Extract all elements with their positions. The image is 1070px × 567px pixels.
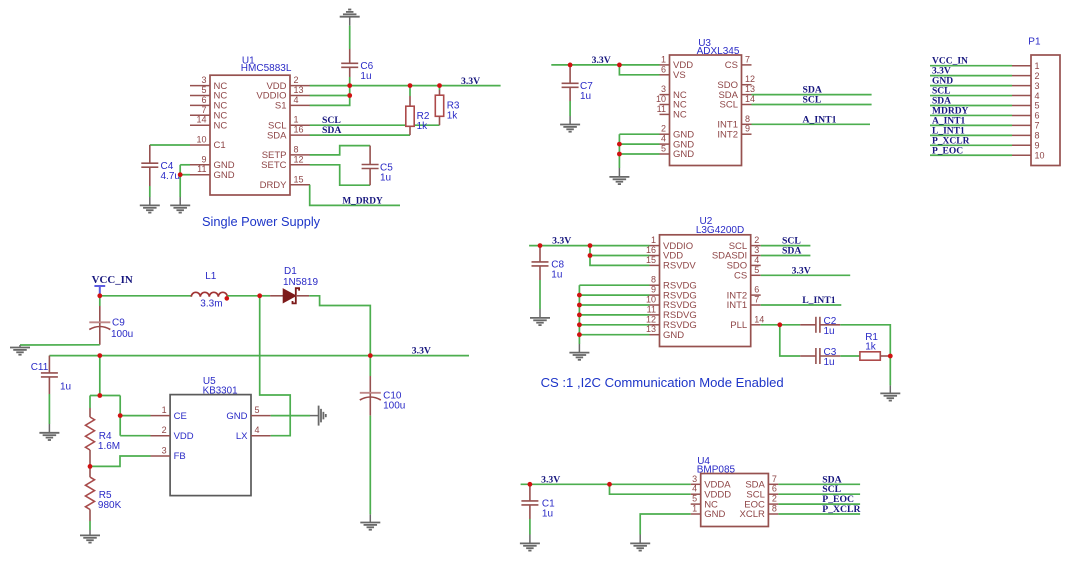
svg-text:9: 9: [1035, 141, 1040, 151]
diode D1 1N5819: [283, 289, 296, 303]
wire C11 to ground: [48, 394, 50, 424]
ground below C4: [140, 205, 160, 212]
svg-text:16: 16: [646, 245, 656, 255]
svg-text:FB: FB: [174, 451, 186, 462]
svg-text:1k: 1k: [447, 110, 459, 121]
wire L1 to D1 node: [227, 295, 259, 297]
svg-text:14: 14: [196, 115, 206, 125]
U1 pin 12 SETC: [290, 164, 310, 166]
ground below U3: [609, 177, 629, 184]
svg-text:8: 8: [294, 144, 299, 154]
svg-text:VS: VS: [673, 70, 686, 81]
wire C2 to right riser: [840, 325, 890, 356]
svg-text:C9: C9: [112, 318, 125, 329]
junction RSVDG rail: [577, 293, 582, 298]
svg-text:8: 8: [1035, 131, 1040, 141]
wire P1 MDRDY: [930, 114, 1012, 116]
U1 pin 3 NC: [190, 85, 210, 87]
U2 pin 10 RSVDG: [650, 304, 660, 306]
wire CE: [120, 415, 150, 417]
wire U1 VDDIO: [310, 95, 350, 97]
wire SETP to C5 top: [310, 146, 370, 155]
U5 pin 4 LX: [251, 435, 271, 437]
ground right of U5: [319, 406, 326, 426]
U1 pin 11 GND: [190, 174, 210, 176]
wire U2 INT1 L_INT1: [761, 304, 842, 306]
resistor R1 right lead: [880, 355, 890, 357]
svg-text:2: 2: [162, 425, 167, 435]
wire FB: [90, 456, 151, 466]
wire P1 VCC_IN: [930, 65, 1012, 67]
svg-text:SDA: SDA: [267, 130, 287, 141]
svg-text:7: 7: [1035, 121, 1040, 131]
U3 pin 8 INT1: [742, 123, 752, 125]
wire P1 GND: [930, 85, 1012, 87]
U3 pin 11 NC: [660, 113, 670, 115]
wire riser to ground: [889, 356, 891, 385]
svg-text:GND: GND: [226, 411, 247, 422]
svg-text:8: 8: [772, 504, 777, 514]
wire RSVDG gnd stem: [578, 344, 580, 353]
U3 pin 5 GND: [660, 153, 670, 155]
capacitor C11: [41, 373, 58, 377]
wire U2 RSVDG pin: [579, 334, 649, 336]
wire U4 XCLR P_XCLR: [778, 513, 860, 515]
wire C8 to ground: [539, 280, 541, 309]
svg-text:KB3301: KB3301: [203, 386, 238, 397]
wire U1 pin11 GND: [180, 174, 190, 176]
junction VS riser: [617, 63, 622, 68]
svg-text:3.3V: 3.3V: [412, 346, 431, 357]
wire U2 SCL: [761, 245, 811, 247]
U2 pin 12 RSVDG: [650, 324, 660, 326]
junction L1-D1-LX node: [257, 293, 262, 298]
junction VDDD riser: [607, 482, 612, 487]
svg-text:1u: 1u: [542, 508, 553, 519]
svg-text:L3G4200D: L3G4200D: [696, 225, 744, 236]
U2 pin 3 SDASDI: [751, 255, 761, 257]
junction CE node: [118, 413, 123, 418]
U3 pin 6 VS: [660, 74, 670, 76]
wire D1 cathode to 3.3V rail: [309, 296, 370, 356]
svg-text:C1: C1: [214, 140, 226, 151]
svg-text:6: 6: [201, 95, 206, 105]
svg-text:L1: L1: [205, 271, 217, 282]
junction R2 top: [408, 83, 413, 88]
svg-text:1: 1: [1035, 61, 1040, 71]
svg-text:1u: 1u: [380, 172, 391, 183]
svg-text:980K: 980K: [98, 500, 122, 511]
junction PLL node: [777, 322, 782, 327]
capacitor C5 bottom lead: [369, 169, 371, 186]
U1 pin 15 DRDY: [290, 184, 310, 186]
connector P1 body: [1031, 55, 1060, 166]
ground below C7: [560, 125, 580, 132]
svg-text:14: 14: [745, 94, 755, 104]
resistor R3 bottom lead: [439, 116, 441, 125]
svg-text:1: 1: [661, 54, 666, 64]
svg-text:9: 9: [745, 124, 750, 134]
capacitor C3 left lead: [800, 355, 816, 357]
capacitor C6: [341, 63, 358, 67]
U1 pin 5 NC: [190, 95, 210, 97]
wire PLL down to C3: [780, 325, 800, 356]
svg-text:4: 4: [754, 255, 759, 265]
capacitor C5 top lead: [369, 146, 371, 165]
wire node to R4 and CE riser: [90, 395, 120, 397]
wire U3 SCL: [752, 104, 872, 106]
svg-text:L_INT1: L_INT1: [802, 295, 836, 306]
U4 pin 7 SDA: [768, 483, 778, 485]
wire U4 EOC P_EOC: [778, 503, 860, 505]
wire U3 GND pin4: [619, 143, 659, 145]
U2 pin 4 SDO: [751, 264, 761, 266]
resistor R3 top lead: [439, 86, 441, 90]
svg-text:13: 13: [745, 84, 755, 94]
svg-text:1k: 1k: [865, 342, 877, 353]
svg-text:SDA: SDA: [932, 97, 951, 107]
U3 pin 14 SCL: [742, 104, 752, 106]
power flag VCC_IN: [94, 286, 105, 296]
svg-text:3: 3: [754, 245, 759, 255]
capacitor C1 bottom lead: [529, 505, 531, 519]
svg-text:4.7u: 4.7u: [161, 171, 180, 182]
U1 pin 16 SDA: [290, 134, 310, 136]
U5 pin 1 CE: [151, 415, 171, 417]
svg-text:Single Power Supply: Single Power Supply: [202, 214, 321, 229]
wire U2 RSVDG pin: [579, 304, 649, 306]
capacitor C9 polarized: [89, 321, 110, 323]
svg-text:1u: 1u: [580, 91, 591, 102]
resistor R2 top lead: [409, 86, 411, 96]
capacitor C9 top lead: [99, 296, 101, 306]
ground below R5: [80, 535, 100, 542]
U1 pin 1 SCL: [290, 124, 310, 126]
svg-text:NC: NC: [214, 120, 228, 131]
U3 pin 12 SDO: [742, 84, 752, 86]
svg-text:4: 4: [255, 425, 260, 435]
wire rail down to R4/CE node: [99, 356, 101, 396]
junction U3 gnd pin4: [617, 142, 622, 147]
wire P1 P_EOC: [930, 154, 1012, 156]
U2 pin 15 RSVDV: [650, 264, 660, 266]
svg-text:7: 7: [745, 54, 750, 64]
junction R4/CE node: [97, 393, 102, 398]
U5 pin 3 FB: [151, 455, 171, 457]
wire C9 to ground line: [20, 344, 100, 346]
capacitor C7 bottom lead: [569, 87, 571, 101]
capacitor C8 top lead: [539, 246, 541, 262]
svg-text:XCLR: XCLR: [740, 509, 765, 520]
op-amp U3 ADXL345 accelerometer IC body: [670, 55, 742, 166]
junction VDDIO: [347, 93, 352, 98]
capacitor C3: [816, 348, 820, 364]
capacitor C1: [521, 501, 538, 505]
svg-text:3.3V: 3.3V: [932, 67, 951, 77]
svg-text:10: 10: [646, 295, 656, 305]
svg-text:P_EOC: P_EOC: [932, 146, 963, 156]
U2 pin 7 INT1: [751, 304, 761, 306]
svg-text:6: 6: [772, 484, 777, 494]
U5 pin 2 VDD: [151, 435, 171, 437]
wire U2 RSVDG pin: [579, 314, 649, 316]
U2 pin 9 RSVDG: [650, 294, 660, 296]
U3 pin 2 GND: [660, 133, 670, 135]
svg-text:S1: S1: [275, 101, 287, 112]
U1 pin 8 SETP: [290, 154, 310, 156]
junction rail feed: [97, 353, 102, 358]
wire P1 A_INT1: [930, 124, 1012, 126]
inductor L1: [191, 292, 227, 297]
svg-text:10: 10: [656, 94, 666, 104]
svg-text:1: 1: [651, 235, 656, 245]
svg-text:3.3V: 3.3V: [592, 55, 611, 66]
svg-text:7: 7: [754, 295, 759, 305]
wire DRDY to M_DRDY: [310, 185, 400, 206]
resistor R5 bottom lead: [89, 510, 91, 522]
U1 pin 14 NC: [190, 124, 210, 126]
svg-text:CS: CS: [725, 60, 738, 71]
junction U1 gnd node: [178, 172, 183, 177]
capacitor C1 top lead: [529, 484, 531, 501]
svg-text:6: 6: [754, 285, 759, 295]
U4 pin 6 SCL: [768, 493, 778, 495]
svg-text:11: 11: [647, 304, 656, 314]
junction R1 right: [888, 354, 893, 359]
wire C6 to VDDIO junction: [349, 77, 351, 96]
svg-text:SCL: SCL: [932, 87, 950, 97]
svg-text:3: 3: [162, 446, 167, 456]
svg-text:1u: 1u: [360, 71, 371, 82]
svg-text:GND: GND: [673, 149, 694, 160]
svg-text:4: 4: [692, 484, 697, 494]
wire U2 VDD pin16: [590, 246, 650, 256]
U3 pin 1 VDD: [660, 64, 670, 66]
junction U2 vdd riser top: [588, 243, 593, 248]
wire P1 L_INT1: [930, 134, 1012, 136]
wire 3.3V output rail: [49, 355, 469, 357]
svg-text:4: 4: [294, 95, 299, 105]
U3 pin 9 INT2: [742, 133, 752, 135]
capacitor C2 right lead: [820, 324, 840, 326]
U5 pin 5 GND: [251, 415, 271, 417]
svg-text:GND: GND: [704, 509, 725, 520]
wire U4 SCL: [778, 493, 860, 495]
ground below RSVDG rail: [569, 353, 589, 360]
wire U3 gnd stem: [618, 168, 620, 177]
wire C4 to ground: [149, 186, 151, 197]
capacitor C4 top lead: [149, 145, 151, 163]
svg-text:P_XCLR: P_XCLR: [822, 504, 861, 515]
capacitor C5: [362, 165, 379, 169]
svg-text:2: 2: [754, 235, 759, 245]
svg-text:D1: D1: [284, 266, 297, 277]
svg-text:1: 1: [692, 504, 697, 514]
svg-text:SDA: SDA: [782, 246, 801, 257]
svg-text:9: 9: [651, 285, 656, 295]
svg-text:13: 13: [294, 85, 304, 95]
svg-text:5: 5: [661, 144, 666, 154]
capacitor C7 top lead: [569, 65, 571, 83]
ground below C11: [39, 433, 59, 440]
junction U2 vdd riser: [588, 253, 593, 258]
wire SETC to C5 bottom: [310, 165, 370, 185]
P1 pin 5 SDA: [1012, 105, 1031, 107]
svg-text:PLL: PLL: [730, 320, 747, 331]
svg-text:SCL: SCL: [720, 100, 738, 111]
capacitor C10 top lead: [369, 356, 371, 376]
svg-text:11: 11: [197, 164, 206, 174]
P1 pin 3 GND: [1012, 85, 1031, 87]
svg-text:5: 5: [201, 85, 206, 95]
capacitor C4 bottom lead: [149, 167, 151, 186]
svg-text:SETC: SETC: [261, 160, 286, 171]
capacitor C2 left lead: [800, 324, 816, 326]
svg-text:MDRDY: MDRDY: [932, 106, 969, 116]
svg-text:14: 14: [754, 314, 764, 324]
svg-text:3.3V: 3.3V: [461, 76, 480, 87]
wire SCL from U1 pin1: [310, 124, 440, 126]
svg-text:7: 7: [772, 474, 777, 484]
capacitor C2: [816, 317, 820, 333]
wire 3.3V to U2 VDDIO: [529, 245, 649, 247]
wire C7 to ground: [569, 101, 571, 116]
wire CE to VDD riser: [119, 416, 121, 436]
junction RSVDG rail: [577, 313, 582, 318]
wire C3 to R1: [840, 355, 860, 357]
svg-text:BMP085: BMP085: [697, 464, 736, 475]
resistor R2: [406, 106, 414, 126]
U2 pin 1 VDDIO: [650, 245, 660, 247]
wire C10 to ground: [369, 416, 371, 515]
op-amp U2 L3G4200D gyroscope IC body: [660, 235, 751, 347]
wire U2 RSVDG pin: [579, 324, 649, 326]
svg-text:5: 5: [1035, 101, 1040, 111]
resistor R4 zigzag: [86, 417, 95, 450]
wire U3 gnd rail: [618, 134, 620, 168]
svg-text:1.6M: 1.6M: [98, 441, 120, 452]
svg-text:3.3V: 3.3V: [792, 265, 811, 276]
capacitor C8: [532, 262, 549, 266]
junction C1 top: [528, 482, 533, 487]
capacitor C11 top lead: [48, 356, 50, 373]
U2 pin 2 SCL: [751, 245, 761, 247]
wire P1 P_XCLR: [930, 144, 1012, 146]
ground below C1: [520, 543, 540, 550]
U1 pin 6 NC: [190, 104, 210, 106]
wire 3.3V to U3 VDD: [551, 64, 659, 66]
svg-text:VCC_IN: VCC_IN: [92, 274, 133, 286]
svg-text:CS: CS: [734, 271, 747, 282]
svg-text:12: 12: [745, 74, 755, 84]
capacitor C6 top lead: [349, 49, 351, 63]
svg-text:2: 2: [661, 124, 666, 134]
junction U3 gnd pin5: [617, 152, 622, 157]
svg-text:15: 15: [294, 174, 304, 184]
svg-text:DRDY: DRDY: [260, 180, 288, 191]
svg-text:CE: CE: [174, 411, 187, 422]
svg-text:CS :1 ,I2C Communication Mode: CS :1 ,I2C Communication Mode Enabled: [541, 375, 784, 390]
wire U1 pin9 GND: [180, 164, 190, 166]
junction RSVDG rail: [577, 332, 582, 337]
ground below U4 GND: [630, 543, 650, 550]
svg-text:1u: 1u: [551, 269, 562, 280]
U1 pin 7 NC: [190, 114, 210, 116]
junction R4-R5-FB node: [88, 464, 93, 469]
wire VCC_IN to L1: [100, 295, 192, 297]
wire U2 RSVDG pin: [579, 284, 649, 286]
U4 pin 3 VDDA: [691, 483, 701, 485]
capacitor C3 right lead: [820, 355, 840, 357]
wire SDA from U1 pin16: [310, 134, 410, 136]
svg-text:4: 4: [661, 134, 666, 144]
U4 pin 1 GND: [691, 513, 701, 515]
svg-text:6: 6: [661, 64, 666, 74]
wire C1 to ground: [529, 519, 531, 535]
ground below C10: [360, 523, 380, 530]
wire to R4 top: [89, 396, 91, 409]
P1 pin 1 VCC_IN: [1012, 65, 1031, 67]
capacitor C8 bottom lead: [539, 266, 541, 280]
P1 pin 4 SCL: [1012, 95, 1031, 97]
svg-text:2: 2: [294, 75, 299, 85]
wire 3.3V to U4 VDDA: [521, 483, 691, 485]
U3 pin 3 NC: [660, 94, 670, 96]
svg-text:7: 7: [201, 105, 206, 115]
junction VCC_IN: [97, 293, 102, 298]
resistor R1: [860, 352, 880, 360]
capacitor C10 bottom lead: [369, 394, 371, 416]
svg-text:11: 11: [657, 104, 666, 114]
capacitor C10 polarized: [360, 392, 381, 394]
U4 pin 2 EOC: [768, 503, 778, 505]
wire U2 SDA: [761, 255, 811, 257]
U3 pin 4 GND: [660, 143, 670, 145]
wire U3 INT1 A_INT1: [752, 123, 871, 125]
junction VDD-C6: [347, 83, 352, 88]
svg-text:3: 3: [661, 84, 666, 94]
wire GND node vertical: [179, 165, 181, 197]
U4 pin 5 NC: [691, 503, 701, 505]
svg-text:A_INT1: A_INT1: [932, 116, 966, 126]
resistor R5 top lead: [89, 466, 91, 477]
U2 pin 6 INT2: [751, 294, 761, 296]
wire CE riser: [119, 396, 121, 416]
svg-text:GND: GND: [663, 330, 684, 341]
capacitor C6 bottom lead: [349, 67, 351, 77]
resistor R4 top lead: [89, 408, 91, 417]
wire U3 GND pin5: [619, 153, 659, 155]
wire VDD U5: [120, 435, 150, 437]
svg-text:A_INT1: A_INT1: [803, 114, 837, 125]
wire P1 SDA: [930, 105, 1012, 107]
junction R3 top: [437, 83, 442, 88]
wire U2 PLL: [761, 324, 801, 326]
U1 pin 13 VDDIO: [290, 95, 310, 97]
svg-text:NC: NC: [673, 110, 687, 121]
wire R5 to ground: [89, 521, 91, 530]
regulator U5 KB3301 body: [170, 395, 251, 496]
capacitor C4: [141, 163, 158, 167]
ground left of C9: [10, 348, 30, 355]
U1 pin 9 GND: [190, 164, 210, 166]
P1 pin 8 L_INT1: [1012, 134, 1031, 136]
svg-text:1: 1: [162, 405, 167, 415]
svg-text:3.3m: 3.3m: [200, 298, 222, 309]
svg-text:L_INT1: L_INT1: [932, 126, 965, 136]
op-amp U4 BMP085 barometer IC body: [701, 474, 769, 527]
wire U2 RSVDG rail: [578, 285, 580, 344]
